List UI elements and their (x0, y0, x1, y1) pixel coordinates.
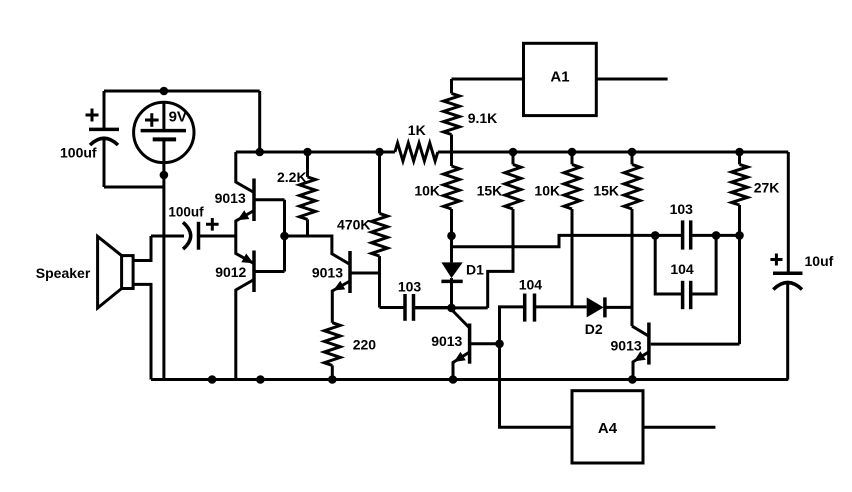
wire 27K to Q5 base (738, 235, 741, 344)
svg-text:2.2K: 2.2K (277, 169, 307, 185)
transistor Q5 9013 (right) (611, 323, 740, 380)
svg-text:9013: 9013 (312, 264, 343, 280)
node ground a (208, 375, 217, 384)
svg-text:10K: 10K (414, 183, 440, 199)
diode D2 (585, 297, 632, 337)
svg-text:A4: A4 (598, 420, 618, 437)
node Q4 emitter ground (449, 375, 458, 384)
node 15K4 rail (628, 148, 637, 157)
wire battery feed to rail (258, 91, 261, 152)
capacitor C 104 (feedback) (655, 235, 716, 309)
capacitor C 103 (feedback) (655, 201, 739, 250)
wire D1 bottom net (414, 306, 488, 309)
node pair base (280, 232, 289, 241)
node 470K top (375, 148, 384, 157)
node 27K top (735, 148, 744, 157)
diode D1 (441, 236, 484, 308)
svg-text:15K: 15K (593, 183, 619, 199)
resistor R 15K (second) (477, 152, 521, 308)
wire top rail left (236, 151, 395, 154)
svg-text:470K: 470K (337, 217, 370, 233)
box A1 (452, 43, 668, 115)
node Q4 base (495, 340, 504, 349)
svg-text:10uf: 10uf (805, 253, 834, 269)
svg-text:104: 104 (519, 277, 543, 293)
capacitor C 103 (380, 278, 452, 321)
svg-text:15K: 15K (477, 183, 503, 199)
svg-text:100uf: 100uf (60, 145, 97, 161)
capacitor C 100uf (battery filter) (60, 91, 164, 187)
node caps right (712, 231, 721, 240)
box A4 (572, 391, 715, 463)
svg-text:D1: D1 (466, 262, 484, 278)
capacitor C 104 (coupling) (500, 277, 587, 344)
node caps left (651, 231, 660, 240)
resistor R 27K (732, 152, 780, 235)
svg-text:10K: 10K (534, 183, 560, 199)
resistor R 470K (337, 152, 387, 308)
transistor Q4 9013 (431, 310, 499, 380)
node 15K2 rail (509, 148, 518, 157)
transistor Q3 9013 (driver) (312, 251, 380, 323)
transistor Q1 9013 (pair top) (215, 152, 285, 236)
svg-text:104: 104 (670, 261, 694, 277)
resistor R 1K (395, 122, 438, 161)
wire top rail right (438, 151, 789, 154)
node Q5 emitter ground (628, 375, 637, 384)
resistor R 10K (first) (414, 166, 459, 236)
node 2.2K top (303, 148, 312, 157)
speaker LS1 (36, 236, 151, 380)
node rail battery feed (255, 148, 264, 157)
wire battery negative down (162, 139, 165, 379)
svg-text:1K: 1K (408, 122, 426, 138)
wire battery top (104, 90, 260, 93)
svg-text:9V: 9V (169, 109, 187, 126)
svg-text:D2: D2 (585, 321, 603, 337)
node 10K3 rail (568, 148, 577, 157)
wire ground rail (151, 378, 788, 381)
svg-text:9013: 9013 (611, 338, 642, 354)
resistor R 9.1K (444, 79, 498, 166)
resistor R 2.2K (277, 152, 316, 236)
node 27K bottom (735, 231, 744, 240)
capacitor C 10uf (770, 152, 833, 380)
node battery- (160, 171, 169, 180)
wire D1 top to caps net (452, 235, 656, 246)
svg-text:A1: A1 (550, 69, 569, 86)
node ground b (256, 375, 265, 384)
svg-text:27K: 27K (754, 180, 780, 196)
svg-text:100uf: 100uf (168, 205, 204, 220)
battery B1 9V (134, 102, 194, 162)
svg-text:9.1K: 9.1K (468, 110, 498, 126)
svg-text:9013: 9013 (215, 190, 246, 206)
svg-text:220: 220 (353, 337, 377, 353)
node D1 bottom (447, 304, 456, 313)
wire pair base tie (285, 200, 351, 272)
svg-text:9012: 9012 (215, 264, 246, 280)
node D1 top (447, 232, 456, 241)
resistor R 15K (fourth) (593, 152, 640, 326)
svg-text:9013: 9013 (431, 333, 462, 349)
svg-text:Speaker: Speaker (36, 265, 91, 281)
svg-text:103: 103 (670, 201, 694, 217)
resistor R 220 (324, 323, 376, 380)
node battery+ top (160, 87, 169, 96)
wire Q4 base to A4 (500, 344, 573, 428)
node 220 ground (328, 375, 337, 384)
transistor Q2 9012 (pair bottom) (215, 236, 284, 380)
svg-text:103: 103 (398, 278, 422, 294)
resistor R 10K (third) (534, 152, 580, 307)
capacitor C 100uf (input) (151, 205, 236, 250)
